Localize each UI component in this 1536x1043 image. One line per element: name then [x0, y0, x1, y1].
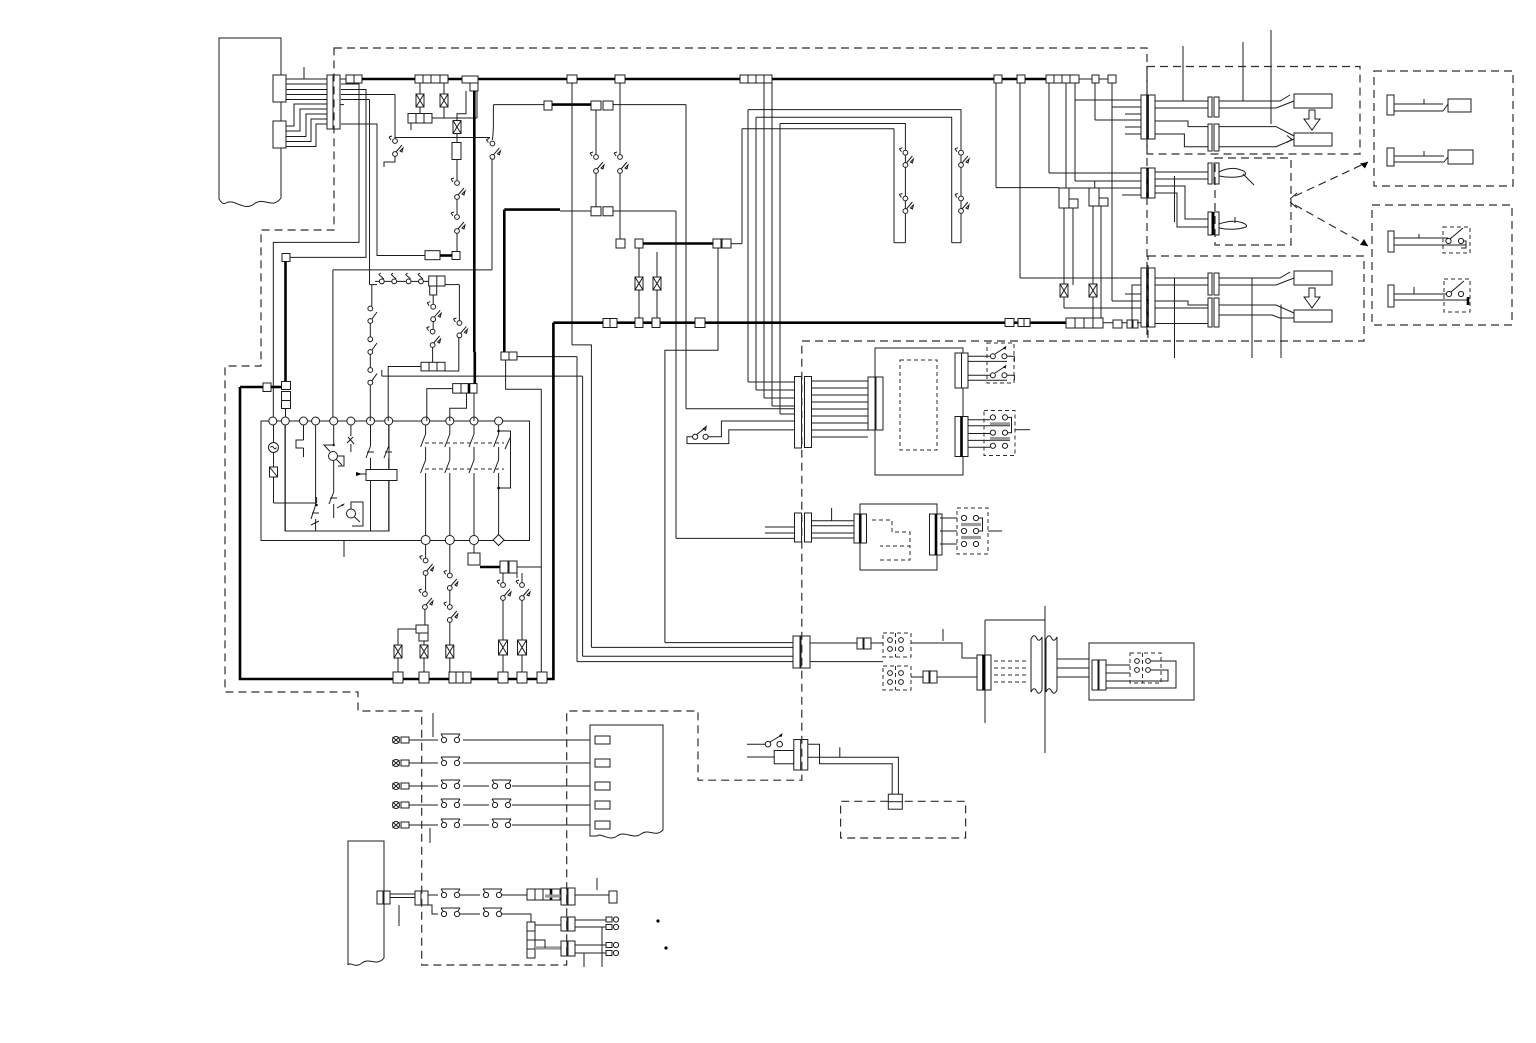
ecu box BB2 — [860, 504, 937, 570]
switch S4 — [451, 212, 465, 233]
plug — [1294, 310, 1332, 322]
motor M1 — [269, 425, 279, 453]
wire — [398, 629, 416, 645]
wire (dark) feeder — [473, 91, 476, 353]
wire — [985, 620, 1045, 723]
connector stack — [527, 922, 535, 958]
switch — [329, 461, 345, 518]
wire (dark) — [284, 262, 287, 382]
control box frame — [261, 421, 530, 541]
wire — [443, 83, 445, 94]
lamp/switch row 3 — [393, 780, 591, 790]
wires — [1057, 659, 1089, 677]
wire+terminal — [575, 917, 619, 930]
wire — [388, 367, 421, 422]
wire — [517, 357, 577, 662]
circle dashed box — [883, 666, 911, 690]
switch — [419, 589, 433, 609]
wire — [341, 95, 395, 139]
wire — [502, 655, 504, 672]
wire stub — [429, 828, 431, 843]
wire — [449, 590, 451, 605]
fuse F7 — [499, 640, 508, 655]
switch sub-box — [1443, 227, 1470, 253]
switch chain — [368, 368, 377, 421]
box pair — [857, 638, 871, 649]
dashed box — [841, 801, 966, 838]
junction box — [616, 239, 625, 248]
wire — [473, 545, 475, 554]
bus box — [695, 318, 705, 328]
switch S2 — [486, 139, 500, 160]
switch — [444, 602, 458, 622]
wire — [273, 84, 359, 421]
wire — [286, 79, 327, 100]
connector block — [408, 114, 432, 124]
wires — [940, 518, 957, 544]
wire stub — [839, 747, 841, 757]
bus box — [652, 318, 660, 328]
junction box — [425, 251, 440, 260]
relay coil K1 — [356, 470, 397, 481]
switch — [311, 425, 319, 531]
switch S3 — [451, 178, 465, 199]
wire — [333, 159, 492, 421]
dashed harness — [900, 360, 937, 450]
wire — [638, 290, 640, 318]
fuse block FB2 — [1046, 75, 1079, 83]
wire — [425, 545, 427, 559]
terminal circles — [269, 417, 503, 425]
bus box — [994, 75, 1002, 83]
wire — [1112, 83, 1142, 301]
wires — [1219, 95, 1294, 108]
wire — [390, 894, 415, 898]
wire — [731, 129, 894, 244]
wire — [765, 527, 795, 533]
connector — [415, 891, 428, 905]
dashed box (mid assembly) — [1215, 158, 1291, 245]
wire — [341, 124, 425, 256]
terminals — [1135, 653, 1151, 683]
wire — [764, 83, 795, 398]
box — [774, 751, 794, 764]
wire — [502, 573, 504, 583]
wire — [419, 83, 421, 94]
switch chain — [368, 306, 377, 337]
connector CN1 — [273, 75, 286, 102]
bus box — [498, 672, 508, 683]
junction box — [501, 352, 517, 360]
box pair — [377, 891, 390, 904]
bottom terminals — [421, 535, 504, 546]
contactor pole — [469, 425, 474, 536]
connector bar — [854, 514, 867, 543]
fuse F4 — [394, 645, 402, 658]
wire — [341, 100, 377, 285]
junction box — [282, 254, 290, 262]
fuse block FB3 — [1066, 318, 1103, 328]
wire — [419, 107, 421, 114]
switch S5 — [899, 148, 913, 168]
bus wire (dark) — [643, 242, 713, 245]
switch — [427, 327, 441, 348]
wire — [560, 210, 591, 212]
wire — [521, 655, 523, 672]
connector RC1 — [868, 377, 883, 430]
wire — [1049, 83, 1142, 173]
bus box pair — [1127, 320, 1138, 328]
wires LC1-RC1 — [812, 381, 868, 437]
bus box — [635, 318, 643, 328]
fuse F10 — [1089, 284, 1097, 297]
wire run — [808, 744, 892, 794]
frame 2 (wavy) — [348, 841, 384, 965]
wire (dark) — [473, 352, 476, 384]
row1 — [428, 889, 527, 898]
component box (wavy) — [590, 725, 663, 838]
fuse F5 — [420, 645, 428, 658]
wires — [1155, 172, 1209, 179]
wire — [583, 655, 793, 657]
wire — [780, 124, 795, 415]
bus wire — [1079, 78, 1116, 80]
bus box — [1108, 75, 1116, 83]
wire — [871, 642, 883, 644]
connector M-E — [1208, 273, 1219, 295]
wire — [996, 83, 1059, 188]
wire — [492, 105, 544, 140]
wire — [535, 924, 561, 926]
bus box — [615, 75, 625, 83]
connector strip CN3 — [327, 75, 340, 129]
connector CN2 — [273, 121, 286, 148]
wire — [1020, 83, 1142, 278]
frame wire (dark) — [240, 323, 553, 679]
switch S6 — [899, 194, 913, 214]
wire — [521, 600, 523, 640]
dashed cont. — [994, 661, 1029, 682]
dashed harness — [872, 520, 910, 560]
wire — [432, 295, 434, 305]
wire (dark) — [240, 386, 263, 389]
bus box pair — [1018, 319, 1030, 327]
bus box — [537, 672, 547, 683]
wire — [333, 425, 335, 446]
wire — [517, 573, 522, 583]
bus box — [419, 672, 429, 683]
wire — [595, 173, 597, 207]
wire — [747, 756, 774, 758]
wire — [340, 79, 346, 105]
wires — [1155, 101, 1209, 108]
switch — [420, 556, 434, 576]
wire — [443, 107, 445, 118]
wire — [772, 83, 795, 406]
dashed box P-bottom — [1372, 205, 1512, 325]
switch sub-box — [1444, 279, 1470, 312]
junction box RB — [1089, 643, 1194, 700]
wire — [1063, 208, 1065, 284]
switch S8 — [955, 194, 969, 214]
wires MC — [812, 521, 855, 538]
connector bars — [561, 888, 575, 905]
connector M-B — [1208, 124, 1219, 151]
exit bars — [955, 353, 968, 388]
connector BC — [793, 636, 810, 668]
wire — [432, 321, 434, 329]
wire — [286, 104, 327, 147]
wire — [424, 609, 426, 625]
terminals — [888, 633, 904, 657]
bus box — [393, 672, 403, 683]
wire — [371, 285, 373, 306]
wire — [425, 575, 427, 592]
terminal box — [888, 794, 902, 809]
wire loop — [1106, 661, 1176, 688]
wire — [937, 676, 978, 678]
circle dashed box — [883, 633, 911, 657]
plug P1 — [1387, 95, 1471, 115]
contact — [366, 425, 374, 470]
frame wire (dark) — [504, 210, 560, 352]
leader arrow — [1290, 202, 1368, 246]
wire — [449, 658, 451, 672]
connector block — [527, 889, 560, 900]
wire — [456, 199, 458, 214]
wire — [575, 894, 609, 896]
wire — [1174, 176, 1176, 222]
junction box — [500, 561, 517, 573]
dashed box P-top — [1374, 71, 1513, 186]
bus connector — [449, 672, 471, 683]
bus wire (dark) — [552, 103, 591, 106]
connector — [416, 625, 428, 641]
wire stub — [596, 878, 598, 890]
wire — [656, 290, 658, 318]
wire — [911, 643, 978, 658]
row2 — [424, 905, 531, 922]
wire — [619, 83, 621, 155]
switch — [444, 571, 458, 591]
wire — [748, 110, 795, 382]
wire — [595, 110, 597, 155]
bus box — [544, 101, 552, 110]
switch SW-C — [765, 733, 782, 747]
wire — [665, 642, 793, 644]
dashed box (bottom assembly) — [1148, 256, 1364, 341]
wire — [1092, 206, 1094, 284]
relay box R2 — [1089, 188, 1108, 206]
wire stubs — [1183, 30, 1271, 124]
wire — [1132, 285, 1141, 320]
connector M-D — [1208, 212, 1219, 235]
wire stubs — [1175, 278, 1282, 358]
wire — [656, 252, 658, 277]
wire — [613, 210, 676, 212]
wires — [1219, 305, 1294, 318]
lamp/switch row 5 — [393, 819, 591, 829]
terminals — [888, 666, 904, 690]
wire stub — [831, 508, 833, 521]
fuse F12 — [653, 277, 661, 290]
wire — [456, 160, 458, 181]
wires — [1106, 665, 1130, 681]
wires — [968, 356, 1007, 380]
pin boxes — [595, 736, 610, 829]
box — [263, 383, 271, 392]
bus box — [1113, 320, 1122, 328]
terminal circles — [961, 515, 1002, 546]
wire stub — [432, 713, 434, 737]
wire — [457, 91, 466, 121]
fuse F2 — [440, 94, 448, 107]
plug — [1294, 133, 1332, 146]
wire — [432, 347, 434, 362]
switch SW-A — [693, 426, 709, 439]
wire — [290, 90, 366, 258]
wires — [1219, 127, 1294, 147]
fuse F6 — [446, 645, 454, 658]
wire — [382, 370, 583, 656]
bus box — [1092, 75, 1099, 83]
leader arrow — [1290, 162, 1368, 199]
wire — [665, 248, 718, 643]
wire — [572, 83, 591, 647]
circle dashed box — [1130, 653, 1161, 683]
wire (dark) — [271, 386, 282, 389]
exit bars low — [955, 417, 968, 457]
wires step — [1155, 121, 1209, 147]
wire — [371, 481, 389, 532]
connector M-C — [1208, 163, 1219, 184]
bus box — [517, 672, 527, 683]
wire — [456, 233, 458, 252]
wire — [423, 658, 425, 672]
wire — [395, 137, 490, 139]
wire — [432, 91, 477, 118]
wire stub — [343, 541, 345, 557]
connector bars — [1092, 660, 1106, 690]
wire — [1064, 297, 1142, 308]
wire — [296, 425, 304, 457]
bus connector — [740, 75, 772, 83]
wire — [1044, 606, 1046, 753]
main bus wire (dark) — [362, 78, 1079, 81]
fuse block FB1 — [415, 75, 448, 83]
connector C4 — [1141, 268, 1155, 327]
connector — [421, 362, 445, 371]
wire — [676, 211, 795, 538]
flame tip — [1219, 217, 1247, 229]
switch S10 — [614, 152, 628, 173]
connector bars TB — [977, 655, 991, 690]
wire — [591, 646, 793, 648]
wire stub — [583, 953, 585, 967]
fuse F11 — [635, 277, 643, 290]
switch — [497, 580, 511, 600]
wire — [687, 430, 795, 444]
bus box pair — [603, 319, 617, 328]
wire — [456, 134, 458, 143]
inner box — [285, 421, 389, 531]
wire — [619, 173, 621, 239]
plug — [1294, 271, 1332, 285]
fuse F8 — [518, 640, 527, 655]
switch S1 — [389, 136, 403, 156]
wire (dark) — [440, 254, 452, 257]
wire — [577, 661, 793, 663]
junction box — [713, 239, 731, 248]
bus box — [567, 75, 577, 83]
wire — [1066, 83, 1142, 188]
hollow arrow — [1304, 288, 1320, 308]
switch dashed box — [987, 343, 1014, 383]
wire — [427, 389, 453, 421]
connector LC1 — [795, 377, 812, 449]
harness frame (body harness) — [219, 38, 281, 207]
dashed box (top assembly) — [1147, 67, 1360, 155]
wire — [473, 393, 475, 421]
wire — [810, 642, 857, 644]
wire — [747, 743, 765, 745]
switch S7 — [955, 148, 969, 168]
bus box — [1005, 319, 1014, 327]
connector bars — [561, 917, 575, 931]
contact — [384, 425, 392, 470]
wire — [338, 456, 345, 466]
main dashed boundary — [225, 48, 1147, 965]
wire stubs — [1122, 114, 1142, 323]
wire — [410, 123, 412, 130]
box pair — [923, 671, 937, 683]
lamp L1 — [324, 445, 342, 465]
switch S9 — [590, 152, 604, 173]
plug P4 — [1388, 285, 1468, 307]
wire run — [808, 757, 899, 794]
wire — [1072, 208, 1074, 286]
wire — [686, 105, 795, 409]
connector bars — [561, 941, 575, 956]
lamp/switch row 1 — [393, 734, 591, 744]
switch — [427, 302, 441, 322]
wire — [1100, 207, 1102, 319]
wires — [968, 420, 1010, 448]
switch chain — [368, 337, 377, 368]
bus box — [1017, 75, 1025, 83]
plug P3 — [1388, 231, 1466, 252]
junction box — [591, 207, 613, 216]
wire — [1103, 322, 1137, 324]
linkage dashed — [425, 443, 504, 469]
connector — [452, 143, 461, 160]
wire — [756, 117, 961, 242]
grey link — [545, 894, 561, 897]
connector stack — [282, 382, 291, 409]
junction box — [346, 75, 362, 83]
wire — [1092, 297, 1094, 318]
wire — [613, 104, 686, 106]
wires — [1219, 272, 1294, 285]
wire — [1095, 83, 1142, 120]
switch — [453, 318, 467, 338]
wire (dark) — [480, 566, 500, 569]
wire — [535, 940, 545, 948]
wire — [384, 156, 395, 167]
wires step — [1155, 301, 1209, 324]
wire — [1075, 83, 1142, 188]
wire — [810, 661, 883, 663]
